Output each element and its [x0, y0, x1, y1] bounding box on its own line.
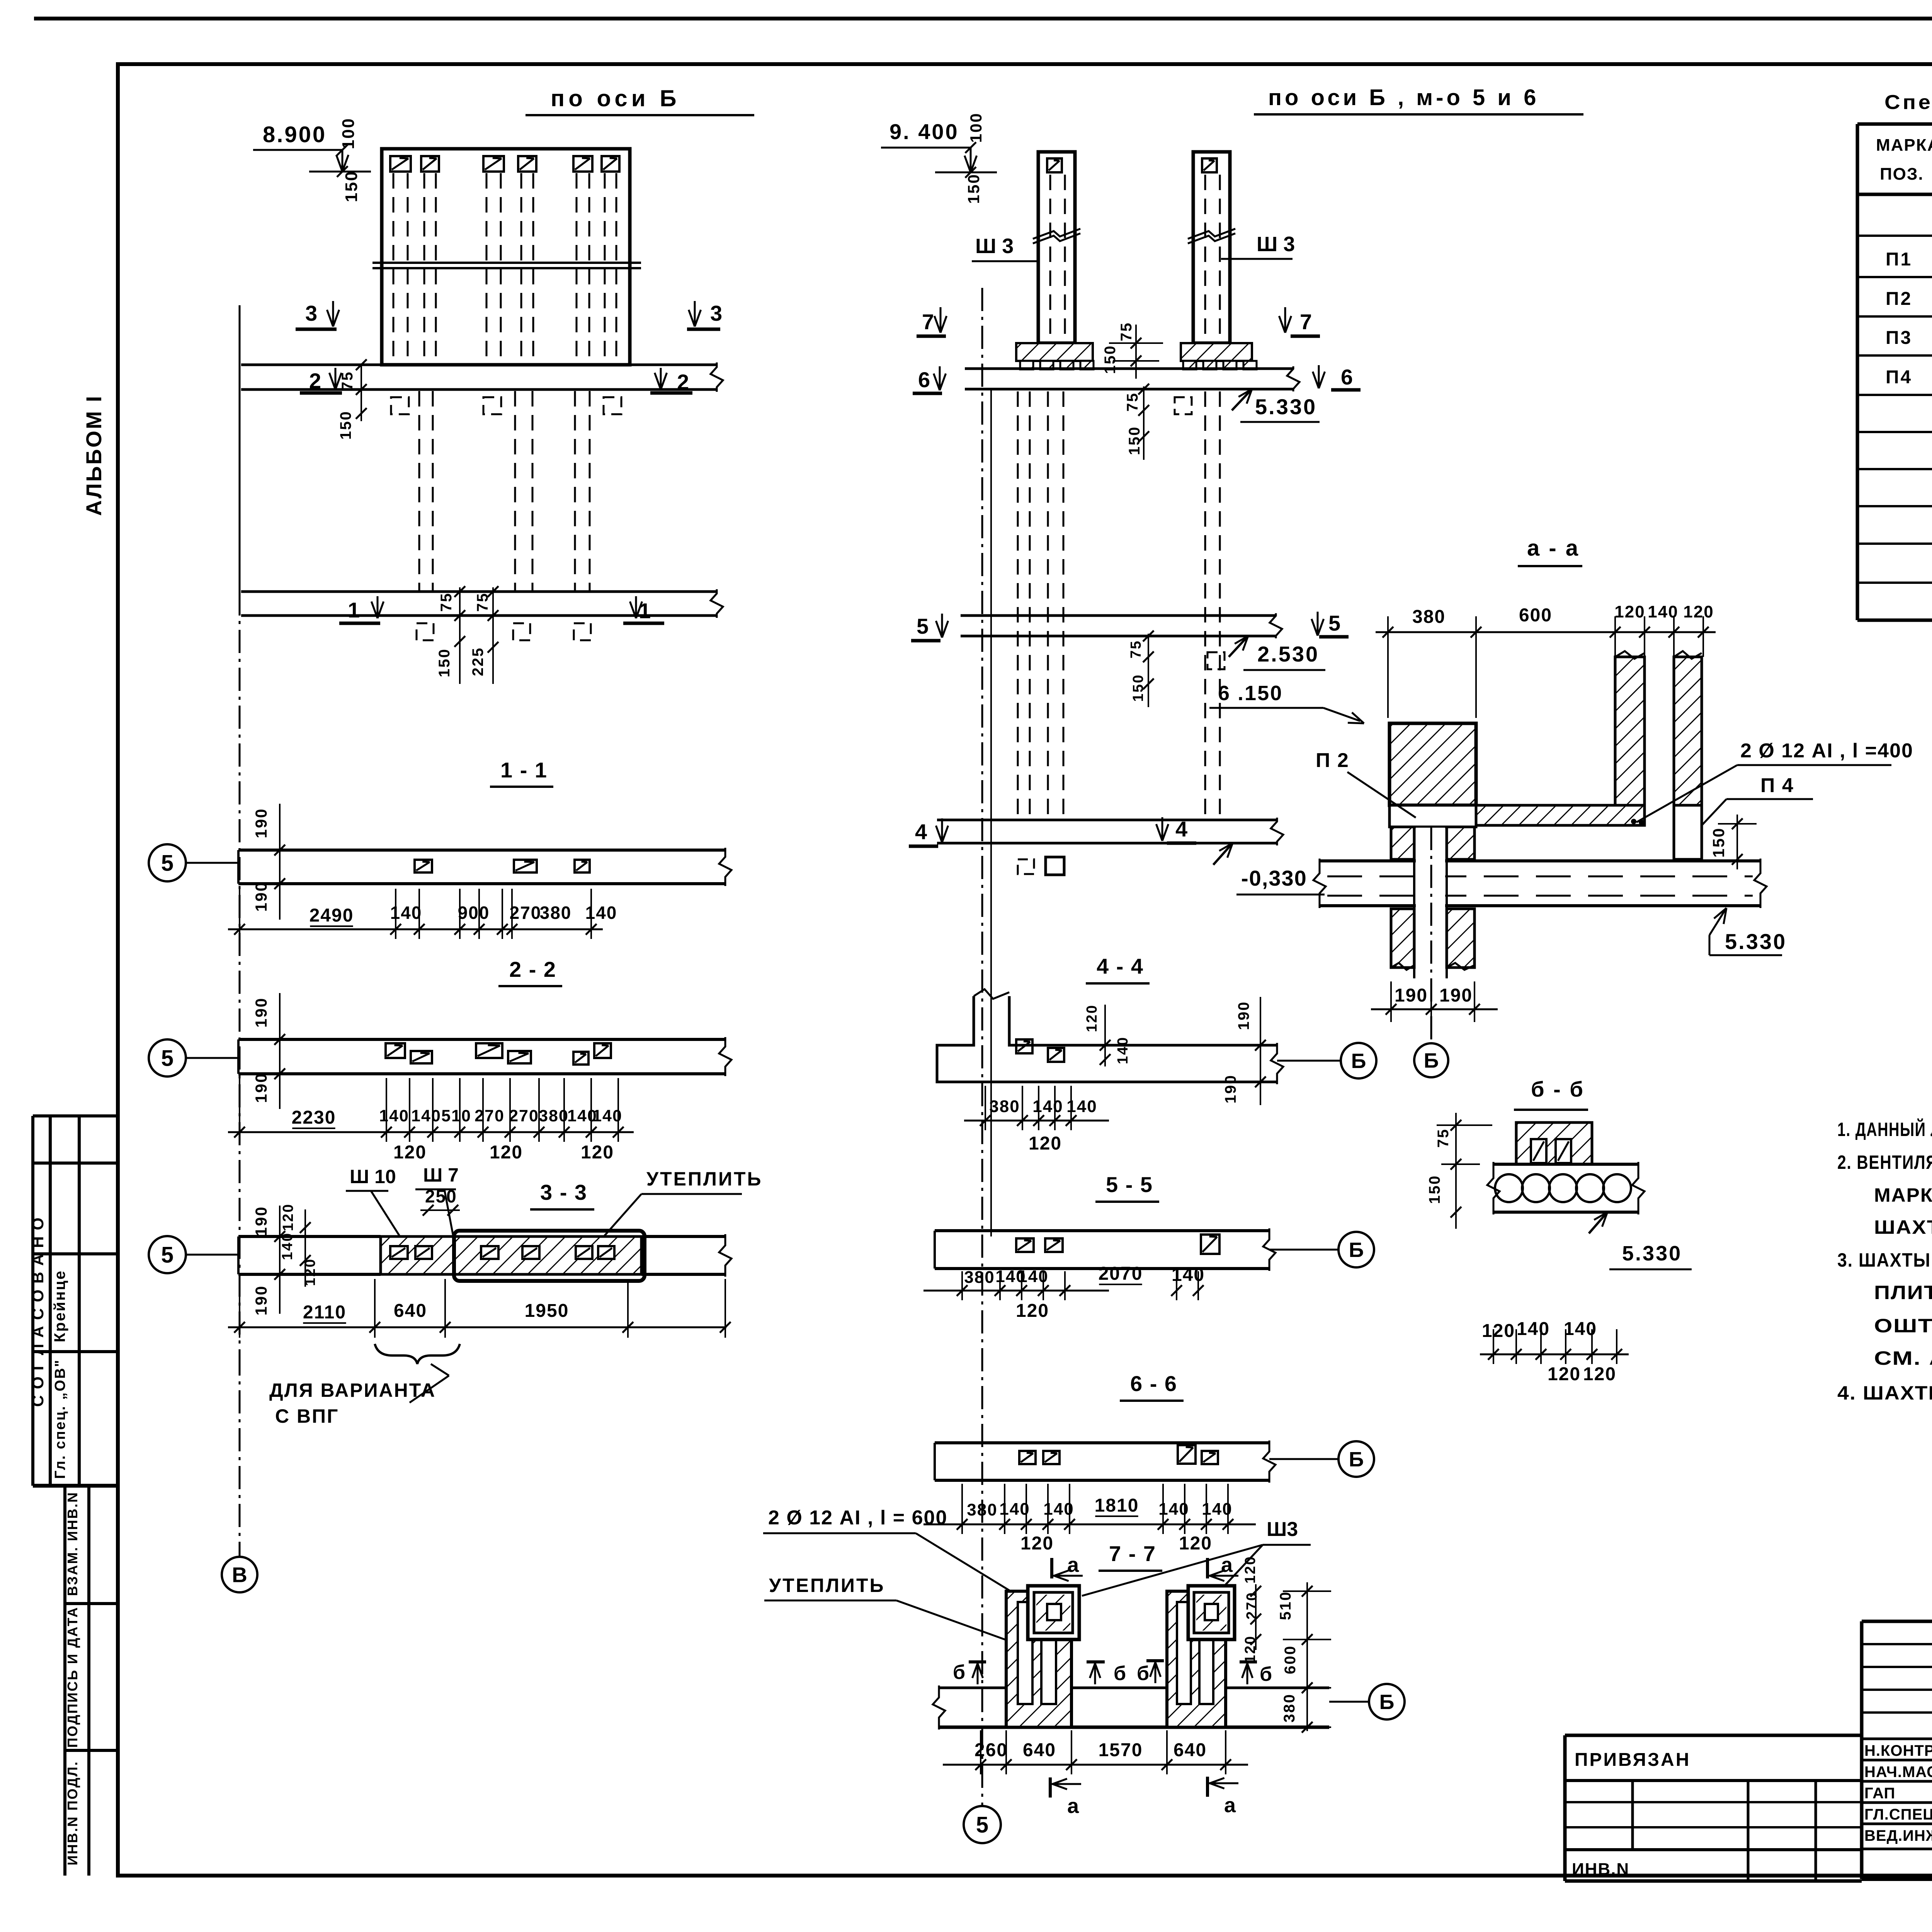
svg-text:150: 150 — [1426, 1175, 1443, 1204]
svg-text:ПОДПИСЬ И ДАТА: ПОДПИСЬ И ДАТА — [65, 1606, 80, 1748]
svg-text:П 4: П 4 — [1760, 774, 1794, 797]
svg-text:150: 150 — [342, 170, 361, 202]
svg-text:75: 75 — [1435, 1128, 1452, 1148]
svg-text:Б: Б — [1349, 1448, 1364, 1471]
svg-text:260: 260 — [975, 1740, 1008, 1760]
svg-text:а: а — [1221, 1553, 1234, 1577]
svg-text:250: 250 — [425, 1186, 457, 1206]
svg-text:НАЧ.МАСТ: НАЧ.МАСТ — [1864, 1764, 1932, 1781]
svg-text:120: 120 — [1029, 1133, 1062, 1154]
svg-text:120: 120 — [490, 1142, 523, 1163]
svg-text:380: 380 — [964, 1268, 995, 1287]
svg-text:640: 640 — [394, 1301, 427, 1321]
svg-text:УТЕПЛИТЬ: УТЕПЛИТЬ — [769, 1575, 885, 1596]
svg-text:2 Ø 12 АI , l =400: 2 Ø 12 АI , l =400 — [1740, 740, 1913, 762]
svg-text:по оси Б , м-о 5 и 6: по оси Б , м-о 5 и 6 — [1268, 85, 1539, 110]
svg-text:П4: П4 — [1886, 367, 1912, 388]
svg-text:120: 120 — [1016, 1301, 1049, 1321]
svg-text:4 - 4: 4 - 4 — [1097, 954, 1144, 978]
svg-text:140: 140 — [390, 903, 422, 923]
svg-text:6: 6 — [1341, 365, 1354, 389]
svg-text:9. 400: 9. 400 — [889, 119, 959, 144]
svg-text:510: 510 — [441, 1107, 471, 1125]
svg-text:5: 5 — [161, 1242, 173, 1267]
svg-text:140: 140 — [1517, 1319, 1550, 1339]
svg-text:2: 2 — [677, 370, 689, 394]
svg-text:75: 75 — [339, 371, 356, 391]
svg-text:П 2: П 2 — [1316, 749, 1349, 772]
svg-text:2230: 2230 — [292, 1107, 336, 1128]
svg-text:С О Г Л А С О В А Н О: С О Г Л А С О В А Н О — [29, 1217, 47, 1407]
svg-text:120: 120 — [1548, 1364, 1581, 1384]
svg-text:270: 270 — [510, 903, 542, 923]
svg-text:140: 140 — [379, 1107, 409, 1125]
svg-text:140: 140 — [1564, 1319, 1597, 1339]
svg-text:ПЛИТАМИ М 125 ПО ГОСТ 9573: ПЛИТАМИ М 125 ПО ГОСТ 9573 – 82 ТОЛЩИНОЙ… — [1874, 1281, 1932, 1303]
svg-text:Спецификация элементов ч: Спецификация элементов чердака и фрагмен… — [1884, 91, 1932, 114]
svg-text:270: 270 — [474, 1107, 505, 1125]
svg-text:150: 150 — [1709, 827, 1728, 857]
svg-text:7 - 7: 7 - 7 — [1109, 1541, 1156, 1566]
svg-text:МАРКА,: МАРКА, — [1876, 136, 1932, 155]
svg-text:1. ДАННЫЙ ЛИСТ ЧИТАТЬ СОВМЕСТН: 1. ДАННЫЙ ЛИСТ ЧИТАТЬ СОВМЕСТНО С ЛИСТАМ… — [1837, 1118, 1932, 1140]
svg-text:а: а — [1067, 1794, 1080, 1818]
svg-text:100: 100 — [967, 112, 985, 143]
svg-text:ГЛ.СПЕЦ.: ГЛ.СПЕЦ. — [1864, 1806, 1932, 1823]
svg-text:140: 140 — [411, 1107, 441, 1125]
svg-text:Ш3: Ш3 — [1267, 1518, 1298, 1541]
svg-text:140: 140 — [1018, 1267, 1048, 1286]
svg-text:140: 140 — [1115, 1036, 1131, 1064]
svg-text:1810: 1810 — [1095, 1495, 1139, 1516]
svg-text:3: 3 — [710, 301, 722, 325]
svg-text:5: 5 — [1328, 611, 1342, 635]
svg-text:ДЛЯ ВАРИАНТА: ДЛЯ ВАРИАНТА — [269, 1379, 436, 1401]
svg-text:100: 100 — [339, 117, 358, 149]
svg-text:120: 120 — [1242, 1635, 1259, 1663]
svg-text:по оси Б: по оси Б — [551, 85, 680, 111]
svg-text:С ВПГ: С ВПГ — [275, 1405, 339, 1427]
svg-text:120: 120 — [393, 1142, 427, 1163]
svg-text:5: 5 — [161, 1046, 173, 1071]
svg-text:140: 140 — [999, 1500, 1030, 1519]
svg-text:640: 640 — [1023, 1740, 1056, 1760]
svg-text:8.900: 8.900 — [263, 122, 327, 147]
svg-text:1: 1 — [348, 598, 360, 622]
svg-text:150: 150 — [964, 173, 983, 204]
svg-text:Б: Б — [1424, 1049, 1439, 1072]
svg-text:600: 600 — [1519, 605, 1552, 626]
svg-text:380: 380 — [1281, 1693, 1298, 1723]
svg-text:190: 190 — [252, 1285, 270, 1315]
svg-text:190: 190 — [252, 997, 270, 1027]
svg-text:ВЗАМ. ИНВ.N: ВЗАМ. ИНВ.N — [65, 1492, 80, 1596]
svg-text:ИНВ.N ПОДЛ.: ИНВ.N ПОДЛ. — [65, 1760, 80, 1865]
svg-text:120: 120 — [1482, 1321, 1515, 1341]
svg-text:5 - 5: 5 - 5 — [1106, 1172, 1153, 1197]
svg-text:П3: П3 — [1886, 328, 1912, 348]
svg-text:380: 380 — [967, 1500, 997, 1519]
svg-text:П1: П1 — [1886, 249, 1912, 270]
svg-text:2110: 2110 — [303, 1302, 346, 1323]
svg-text:4: 4 — [915, 820, 929, 844]
svg-text:7: 7 — [1300, 310, 1313, 334]
svg-text:2490: 2490 — [310, 905, 354, 926]
svg-text:7: 7 — [922, 310, 935, 334]
svg-text:140: 140 — [1032, 1097, 1063, 1116]
svg-text:б: б — [1260, 1663, 1274, 1685]
svg-text:75: 75 — [1118, 322, 1135, 342]
svg-text:АЛЬБОМ I: АЛЬБОМ I — [82, 395, 106, 516]
svg-text:6 .150: 6 .150 — [1218, 682, 1283, 705]
svg-text:900: 900 — [458, 903, 490, 923]
svg-text:120: 120 — [1242, 1556, 1259, 1583]
svg-text:225: 225 — [469, 647, 486, 676]
svg-text:ВЕД.ИНЖ: ВЕД.ИНЖ — [1864, 1827, 1932, 1844]
svg-text:640: 640 — [1173, 1740, 1207, 1760]
svg-text:120: 120 — [1179, 1533, 1212, 1554]
svg-text:П2: П2 — [1886, 289, 1912, 309]
svg-text:120: 120 — [1084, 1004, 1100, 1032]
svg-text:2 - 2: 2 - 2 — [509, 957, 556, 981]
svg-text:190: 190 — [252, 808, 270, 838]
svg-text:150: 150 — [1102, 345, 1119, 374]
svg-text:120: 120 — [1683, 602, 1714, 621]
svg-text:5: 5 — [161, 850, 173, 876]
svg-text:190: 190 — [1235, 1001, 1252, 1030]
svg-text:Н.КОНТР.: Н.КОНТР. — [1864, 1742, 1932, 1759]
svg-text:190: 190 — [1222, 1074, 1239, 1104]
svg-text:190: 190 — [1439, 985, 1473, 1006]
svg-text:Ш 7: Ш 7 — [423, 1164, 459, 1186]
svg-text:3: 3 — [305, 301, 317, 325]
svg-text:ИНВ.N: ИНВ.N — [1572, 1860, 1629, 1879]
svg-text:Ш 3: Ш 3 — [975, 235, 1014, 258]
svg-text:1570: 1570 — [1099, 1740, 1143, 1760]
svg-text:ШАХТЫ Ш8 ,Ш9 ,Ш10 -ИЗ ТОГО ЖЕ: ШАХТЫ Ш8 ,Ш9 ,Ш10 -ИЗ ТОГО ЖЕ КИРПИЧА НА… — [1874, 1216, 1932, 1238]
svg-text:5: 5 — [976, 1812, 988, 1837]
svg-text:120: 120 — [280, 1203, 296, 1231]
svg-text:УТЕПЛИТЬ: УТЕПЛИТЬ — [646, 1168, 762, 1190]
svg-text:140: 140 — [1066, 1097, 1097, 1116]
svg-text:190: 190 — [252, 1206, 270, 1236]
svg-text:150: 150 — [337, 410, 354, 440]
svg-text:2 Ø 12 АI , l = 600: 2 Ø 12 АI , l = 600 — [768, 1507, 947, 1529]
svg-text:3. ШАХТЫ Ш1 ÷ Ш7 УТЕПЛИТЬ: 3. ШАХТЫ Ш1 ÷ Ш7 УТЕПЛИТЬ МИНЕРАЛОВАТНЫМ… — [1837, 1249, 1932, 1271]
svg-text:МАРКИ КР 100 /1650 /35 ПО ГО: МАРКИ КР 100 /1650 /35 ПО ГОСТ 530 -80 ,… — [1874, 1184, 1932, 1206]
svg-text:6: 6 — [918, 367, 932, 392]
svg-text:Б: Б — [1379, 1690, 1395, 1714]
svg-text:140: 140 — [592, 1107, 622, 1125]
svg-text:б: б — [953, 1661, 967, 1684]
svg-text:600: 600 — [1282, 1645, 1299, 1674]
svg-text:380: 380 — [540, 903, 572, 923]
svg-text:380: 380 — [989, 1097, 1020, 1116]
svg-text:а: а — [1224, 1794, 1237, 1817]
svg-text:Б: Б — [1351, 1049, 1366, 1073]
svg-text:190: 190 — [252, 881, 270, 912]
svg-text:6 - 6: 6 - 6 — [1130, 1371, 1177, 1396]
svg-text:Ш 10: Ш 10 — [350, 1166, 396, 1187]
svg-text:б: б — [1137, 1662, 1151, 1685]
svg-text:1 - 1: 1 - 1 — [500, 758, 548, 782]
svg-text:120: 120 — [581, 1142, 614, 1163]
svg-text:4: 4 — [1175, 817, 1189, 841]
svg-text:75: 75 — [1124, 392, 1141, 412]
svg-text:190: 190 — [1395, 985, 1428, 1006]
svg-text:5.330: 5.330 — [1255, 395, 1317, 419]
svg-text:140: 140 — [1202, 1500, 1232, 1519]
svg-text:120: 120 — [1020, 1533, 1054, 1554]
svg-text:Б: Б — [1349, 1238, 1364, 1262]
svg-text:-0,330: -0,330 — [1241, 866, 1307, 890]
svg-text:Гл. спец. „ОВ": Гл. спец. „ОВ" — [52, 1359, 68, 1479]
svg-text:ПРИВЯЗАН: ПРИВЯЗАН — [1575, 1750, 1690, 1770]
svg-text:Крейнце: Крейнце — [51, 1270, 68, 1342]
svg-text:510: 510 — [1277, 1591, 1294, 1620]
svg-text:5: 5 — [917, 614, 930, 638]
svg-text:СМ. АС – 34 / .: СМ. АС – 34 / . — [1874, 1347, 1932, 1369]
svg-text:б - б: б - б — [1531, 1077, 1585, 1101]
svg-text:1: 1 — [639, 599, 651, 623]
svg-text:140: 140 — [1648, 602, 1678, 621]
svg-text:2.530: 2.530 — [1257, 642, 1319, 666]
svg-text:140: 140 — [1043, 1500, 1074, 1519]
svg-text:1950: 1950 — [525, 1301, 569, 1321]
svg-text:2. ВЕНТИЛЯЦИОННЫЕ ШАХТЫ ВЫПО: 2. ВЕНТИЛЯЦИОННЫЕ ШАХТЫ ВЫПОЛНИТЬ ИЗ КИР… — [1837, 1151, 1932, 1173]
svg-text:3 - 3: 3 - 3 — [540, 1180, 587, 1204]
svg-text:а: а — [1067, 1553, 1080, 1577]
svg-text:ПОЗ.: ПОЗ. — [1880, 165, 1924, 184]
svg-text:75: 75 — [1128, 640, 1144, 658]
svg-text:а - а: а - а — [1527, 536, 1580, 561]
svg-text:ГАП: ГАП — [1864, 1785, 1895, 1802]
svg-text:380: 380 — [539, 1107, 569, 1125]
svg-text:150: 150 — [436, 648, 453, 677]
svg-text:В: В — [232, 1563, 247, 1587]
svg-text:270: 270 — [1244, 1592, 1260, 1619]
svg-text:140: 140 — [585, 903, 617, 923]
svg-text:140: 140 — [1172, 1265, 1205, 1285]
svg-text:140: 140 — [1158, 1500, 1189, 1519]
svg-text:б: б — [1114, 1662, 1128, 1685]
svg-text:120: 120 — [1583, 1364, 1616, 1384]
svg-text:Ш 3: Ш 3 — [1257, 233, 1295, 256]
svg-text:190: 190 — [252, 1072, 270, 1103]
svg-text:ОШТУКАТУРИТЬ ПО СЕТКЕ /: ОШТУКАТУРИТЬ ПО СЕТКЕ / ДЕТАЛЬ УТЕПЛЕНИЯ — [1874, 1315, 1932, 1337]
svg-text:140: 140 — [279, 1232, 296, 1260]
svg-text:4. ШАХТЫ Ш 8 , Ш 9 , Ш 10 - Д: 4. ШАХТЫ Ш 8 , Ш 9 , Ш 10 - ДЛЯ ВАРИАНТА… — [1837, 1382, 1932, 1404]
svg-text:2: 2 — [309, 369, 321, 393]
svg-text:270: 270 — [509, 1107, 539, 1125]
svg-text:120: 120 — [1614, 602, 1645, 621]
svg-text:2070: 2070 — [1099, 1264, 1143, 1284]
svg-text:5.330: 5.330 — [1725, 929, 1787, 954]
svg-text:380: 380 — [1412, 607, 1446, 627]
svg-text:5.330: 5.330 — [1622, 1242, 1682, 1265]
svg-text:75: 75 — [438, 592, 455, 612]
